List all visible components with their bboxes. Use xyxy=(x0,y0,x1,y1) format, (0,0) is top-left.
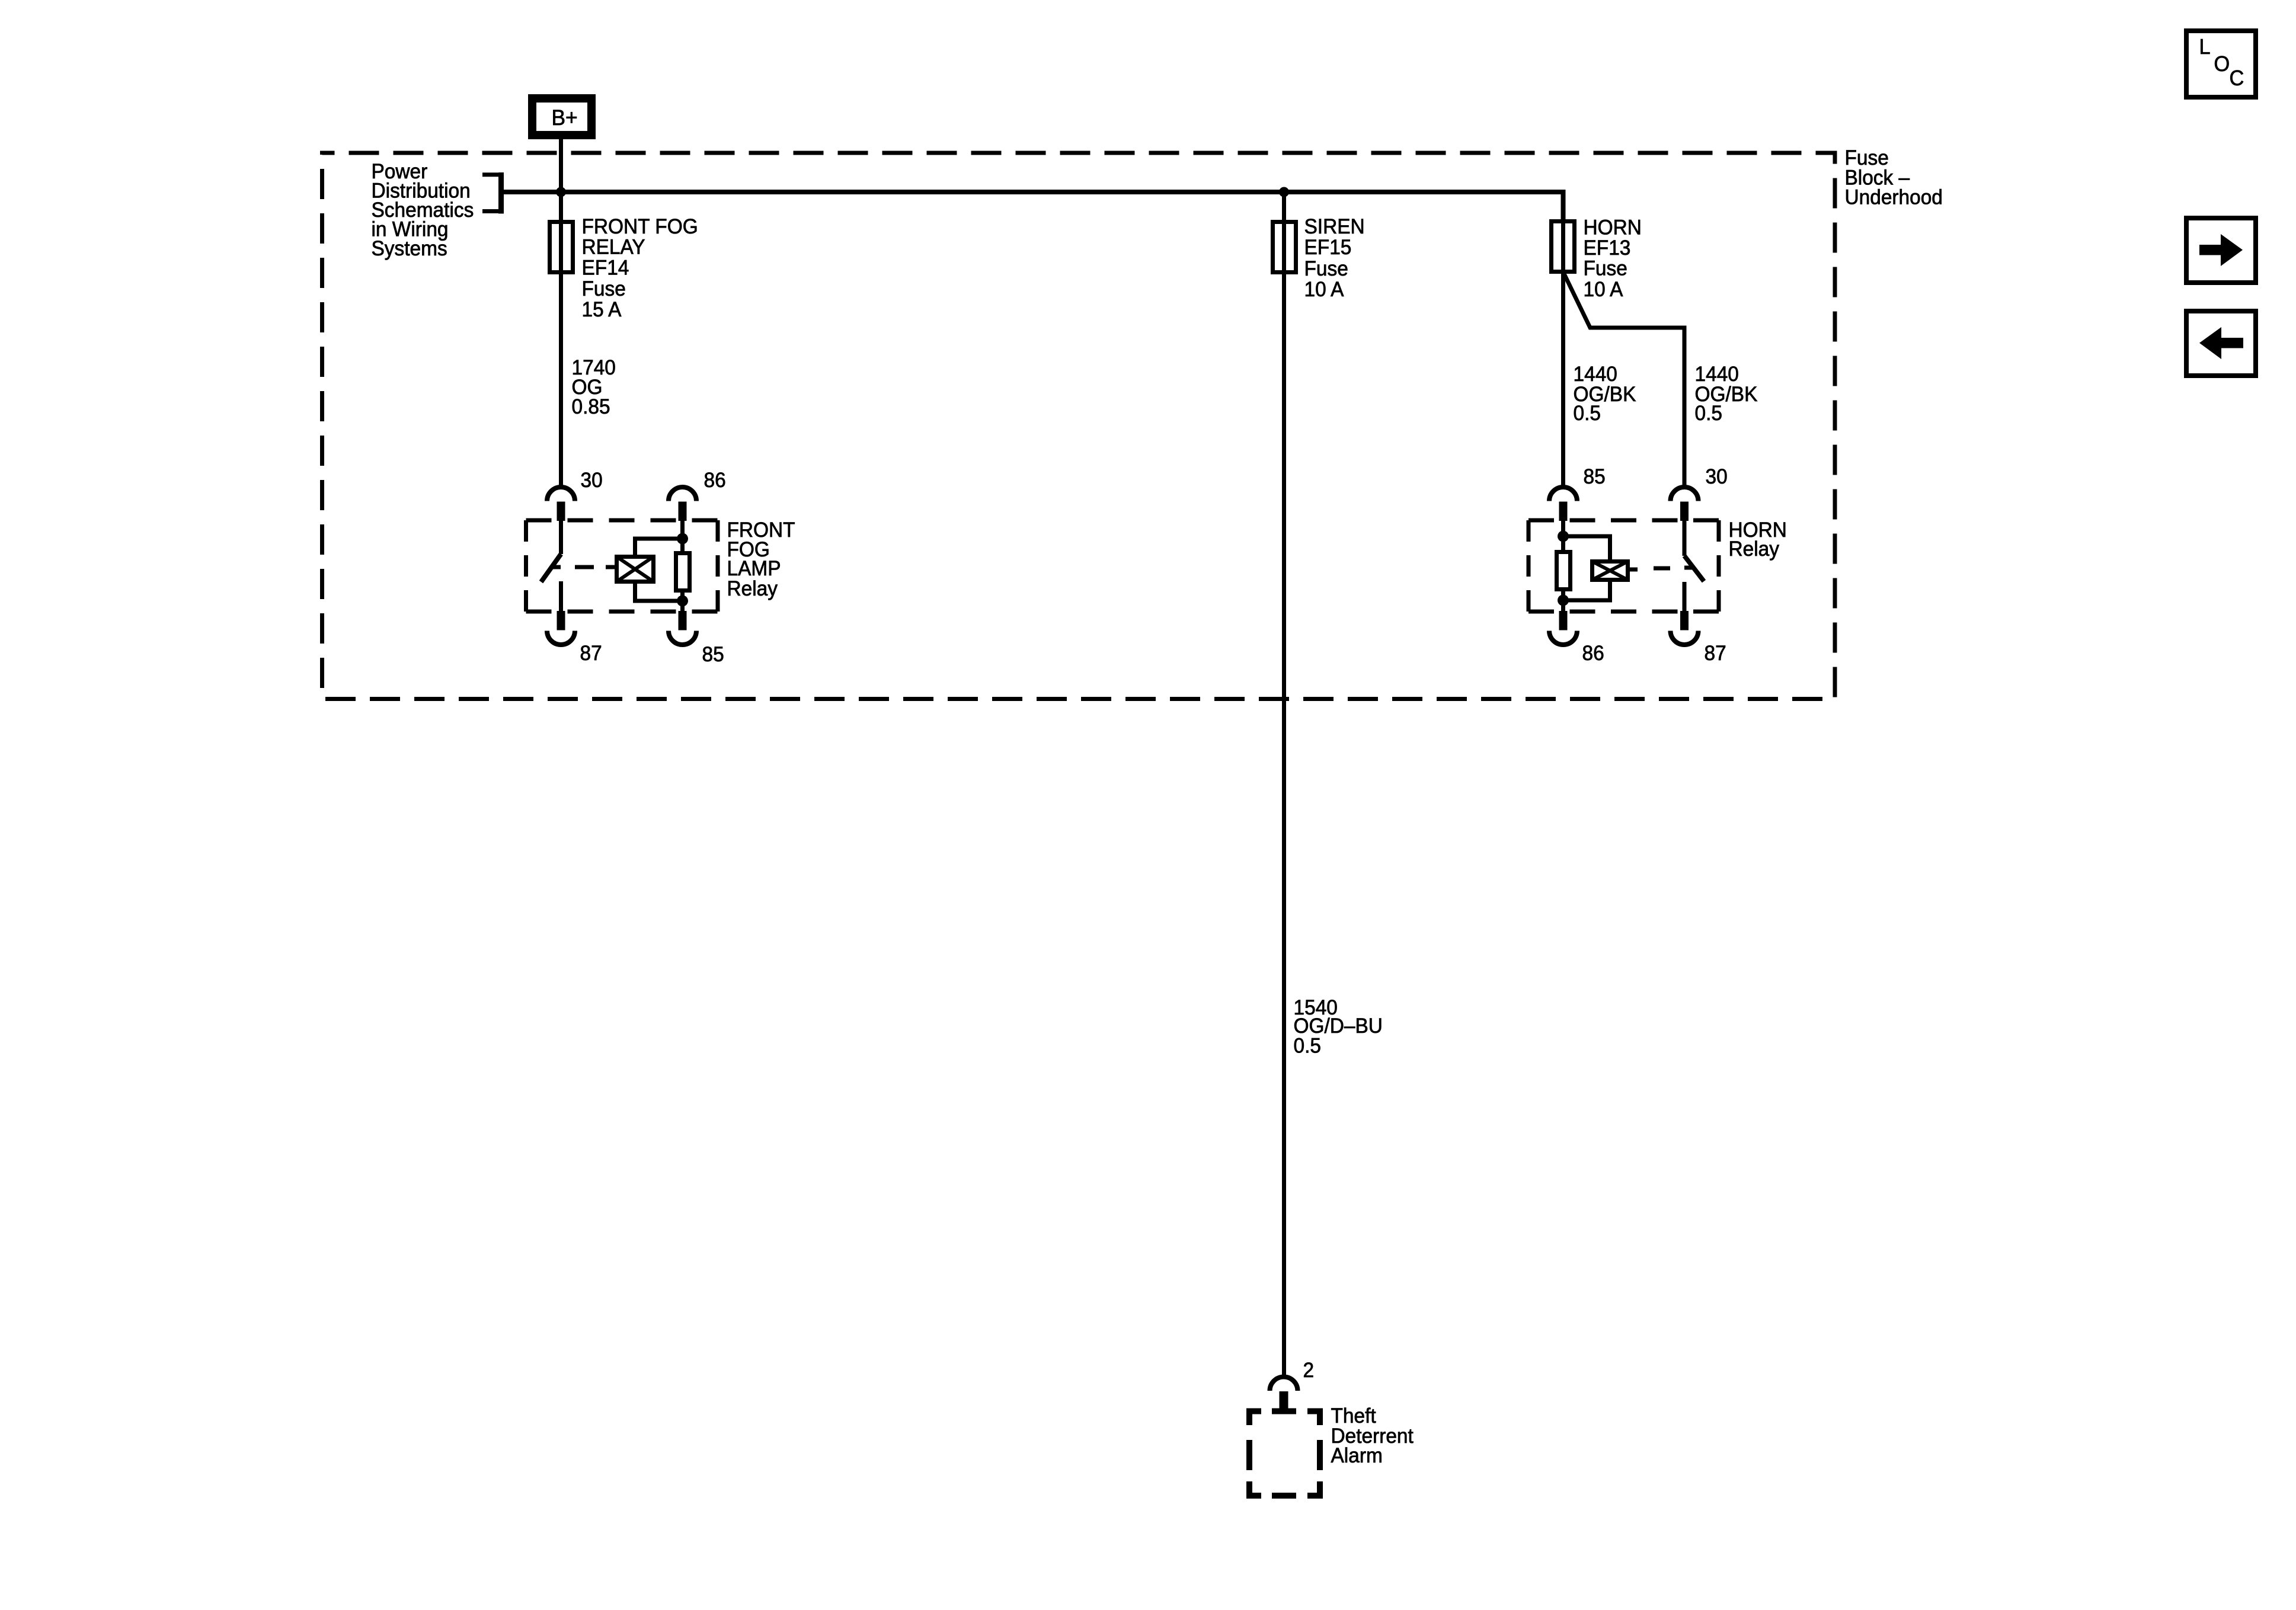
node: coil bottom junction (horn relay) xyxy=(1558,595,1569,606)
fuse block underhood enclosure (dashed box) xyxy=(322,153,1835,699)
svg-text:Fuse: Fuse xyxy=(582,277,626,300)
hyperlink arrow next (right) xyxy=(2186,218,2256,283)
fuse EF15 (SIREN 10 A) xyxy=(1273,222,1296,273)
svg-text:2: 2 xyxy=(1303,1359,1315,1382)
node: coil top junction (front fog relay) xyxy=(677,533,688,545)
svg-text:30: 30 xyxy=(581,469,603,492)
svg-text:Relay: Relay xyxy=(727,577,778,600)
coil parallel loop top (front fog relay) xyxy=(635,539,683,556)
label: Theft Deterrent Alarm xyxy=(1331,1404,1414,1467)
svg-text:0.5: 0.5 xyxy=(1695,402,1723,425)
label: HORN EF13 Fuse 10 A xyxy=(1584,216,1642,301)
svg-text:Fuse: Fuse xyxy=(1304,257,1348,280)
wire: pin 85 to resistor (horn relay) xyxy=(1561,520,1565,552)
svg-text:FRONT FOG: FRONT FOG xyxy=(582,215,698,238)
svg-text:L: L xyxy=(2199,34,2211,59)
label: wire 1440 OG/BK 0.5 (right) xyxy=(1695,363,1758,425)
wire: resistor to pin 85 (front fog relay) xyxy=(680,591,685,612)
label: wire 1540 OG/D-BU 0.5 xyxy=(1294,996,1383,1058)
svg-text:30: 30 xyxy=(1706,465,1728,488)
svg-text:0.5: 0.5 xyxy=(1294,1035,1322,1058)
label: FRONT FOG RELAY EF14 Fuse 15 A xyxy=(582,215,698,321)
relay coil (front fog relay) xyxy=(617,557,654,582)
svg-text:O: O xyxy=(2214,52,2230,76)
svg-text:0.85: 0.85 xyxy=(572,395,610,418)
connector pin 30 (front fog relay) xyxy=(547,487,575,521)
fuse EF13 (HORN 10 A) xyxy=(1552,222,1575,272)
connector pin 85 (front fog relay) xyxy=(669,611,696,645)
svg-text:B+: B+ xyxy=(552,105,578,130)
bracket linking note to bus xyxy=(482,175,501,212)
svg-text:10 A: 10 A xyxy=(1304,278,1345,301)
svg-text:EF15: EF15 xyxy=(1304,236,1352,259)
svg-text:SIREN: SIREN xyxy=(1304,215,1365,238)
node: junction at siren tap xyxy=(1279,187,1289,197)
svg-text:85: 85 xyxy=(1584,465,1606,488)
svg-text:85: 85 xyxy=(702,643,724,666)
coil suppression resistor (front fog relay) xyxy=(676,553,690,591)
svg-text:86: 86 xyxy=(704,469,726,492)
label: SIREN EF15 Fuse 10 A xyxy=(1304,215,1365,301)
svg-text:15 A: 15 A xyxy=(582,298,622,321)
wire: B+ box to fuse EF14 xyxy=(559,138,563,222)
node: coil bottom junction (front fog relay) xyxy=(677,596,688,607)
svg-text:RELAY: RELAY xyxy=(582,236,645,259)
connector pin 86 (front fog relay) xyxy=(669,487,696,521)
svg-text:0.5: 0.5 xyxy=(1574,402,1601,425)
switch: relay contact 30-87 (front fog relay) xyxy=(541,520,561,612)
coil actuation dashed link (front fog relay) xyxy=(552,565,615,569)
fuse EF14 (FRONT FOG RELAY 15 A) xyxy=(550,222,573,273)
wire 1440 OG/BK right (EF13 to horn relay pin 30) xyxy=(1564,274,1684,487)
coil parallel loop bottom (front fog relay) xyxy=(635,582,683,601)
svg-text:Alarm: Alarm xyxy=(1331,1444,1383,1467)
coil parallel loop top (horn relay) xyxy=(1563,536,1610,562)
coil parallel loop bottom (horn relay) xyxy=(1563,580,1610,600)
note: Power Distribution Schematics in Wiring Systems xyxy=(372,160,474,260)
svg-text:Systems: Systems xyxy=(372,237,447,260)
switch: relay contact 30-87 (horn relay) xyxy=(1684,520,1704,612)
hyperlink arrow previous (left) xyxy=(2186,311,2256,376)
wire: resistor to pin 86 (horn relay) xyxy=(1561,590,1565,612)
coil actuation dashed link (horn relay) xyxy=(1630,568,1693,569)
svg-text:Underhood: Underhood xyxy=(1845,186,1943,209)
coil suppression resistor (horn relay) xyxy=(1557,552,1571,590)
connector pin 2 (theft deterrent alarm) xyxy=(1270,1377,1298,1411)
label: wire 1740 OG 0.85 xyxy=(572,356,616,418)
connector pin 86 (horn relay) xyxy=(1549,611,1577,645)
svg-text:EF14: EF14 xyxy=(582,257,629,280)
svg-text:86: 86 xyxy=(1582,642,1604,665)
label: wire 1440 OG/BK 0.5 (left) xyxy=(1574,363,1636,425)
connector pin 87 (front fog relay) xyxy=(547,611,575,645)
relay coil (horn relay) xyxy=(1593,562,1628,580)
power symbol B+ (battery feed) xyxy=(532,98,591,135)
connector pin 30 (horn relay) xyxy=(1671,487,1699,521)
wire 1740 OG 0.85 (EF14 to relay pin 30) xyxy=(559,273,563,487)
svg-text:10 A: 10 A xyxy=(1584,278,1624,301)
svg-text:C: C xyxy=(2230,66,2244,90)
wire through fuse EF14 xyxy=(559,222,563,273)
label: Fuse Block - Underhood xyxy=(1845,146,1943,209)
svg-text:EF13: EF13 xyxy=(1584,236,1631,260)
svg-text:Fuse: Fuse xyxy=(1584,257,1627,280)
wire through fuse EF13 xyxy=(1561,221,1565,272)
wire 1440 OG/BK left (EF13 to horn relay pin 85) xyxy=(1561,272,1565,487)
front fog lamp relay enclosure (dashed box) xyxy=(526,520,718,612)
node: coil top junction (horn relay) xyxy=(1558,531,1569,542)
svg-text:HORN: HORN xyxy=(1584,216,1642,239)
horn relay enclosure (dashed box) xyxy=(1528,520,1719,612)
svg-text:Relay: Relay xyxy=(1729,537,1780,561)
label: HORN Relay xyxy=(1729,518,1787,561)
svg-text:87: 87 xyxy=(580,642,602,665)
connector pin 85 (horn relay) xyxy=(1549,487,1577,521)
node: junction at B+ drop xyxy=(556,187,566,197)
wire: B+ distribution bus (to EF13) xyxy=(501,192,1563,221)
svg-text:87: 87 xyxy=(1705,642,1726,665)
wire: siren tap to theft deterrent alarm xyxy=(1282,192,1286,1378)
connector pin 87 (horn relay) xyxy=(1671,611,1699,645)
theft deterrent alarm enclosure (dashed box) xyxy=(1246,1411,1323,1496)
label: FRONT FOG LAMP Relay xyxy=(727,518,795,600)
wire: pin 86 to resistor (front fog relay) xyxy=(680,520,685,553)
wire through fuse EF15 xyxy=(1282,222,1286,273)
LOC reference box xyxy=(2186,31,2256,97)
